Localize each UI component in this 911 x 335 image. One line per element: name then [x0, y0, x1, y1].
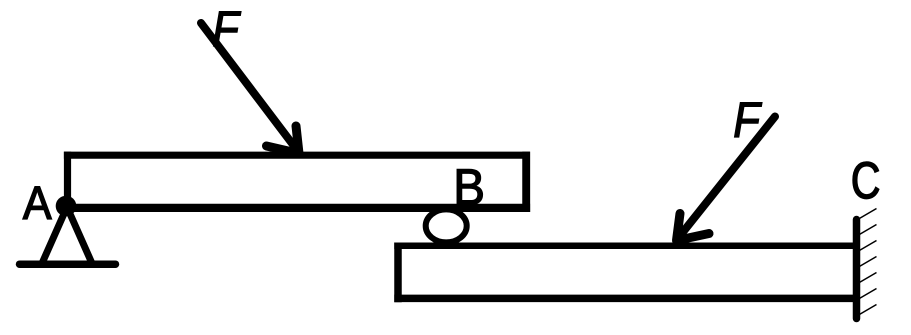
pin support A: triangle legs	[42, 207, 93, 265]
fixed support wall at C	[853, 220, 861, 319]
beam BC bottom edge	[394, 295, 857, 303]
force F2 value label F	[735, 103, 762, 137]
beam AB right edge	[522, 152, 530, 212]
force F1 arrowhead	[267, 126, 300, 154]
node label B	[457, 169, 482, 204]
node label C	[853, 162, 879, 199]
force F1 value label F	[214, 12, 241, 46]
pin support A: ground line	[20, 260, 116, 268]
beam AB bottom edge	[64, 204, 530, 212]
beam AB top edge	[64, 152, 530, 159]
force F2 arrowhead	[677, 214, 710, 241]
wall hatching	[859, 209, 877, 316]
beam BC left edge	[394, 243, 402, 303]
roller support B	[426, 209, 467, 242]
node label A	[23, 187, 52, 219]
beam AB left edge	[64, 152, 71, 208]
force F1 arrow shaft	[201, 23, 297, 150]
pin support A: hinge dot	[56, 196, 77, 217]
beam BC top edge	[394, 243, 857, 250]
force F2 arrow shaft	[679, 117, 775, 238]
